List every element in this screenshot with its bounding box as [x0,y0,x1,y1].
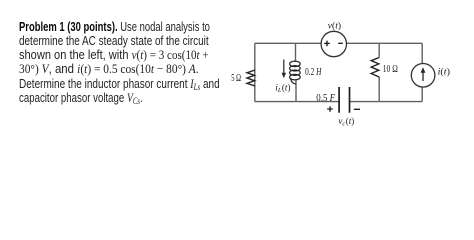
plus sign in source [324,41,330,47]
wire inductor branch [295,43,298,101]
voltage source V circle [321,31,346,56]
svg-text:i(t): i(t) [438,66,450,77]
wire top-left segment [255,42,321,44]
resistor R 10ohm [371,58,379,78]
capacitor minus polarity [354,108,360,110]
wire 10-ohm branch [378,43,380,101]
wire bottom-right segment [350,101,422,103]
resistor R 5ohm [247,70,255,86]
minus sign in source [338,42,343,44]
wire right branch [421,43,423,101]
capacitor C plates [339,87,349,113]
svg-text:5 Ω: 5 Ω [231,73,241,84]
svg-text:vc(t): vc(t) [338,116,354,128]
svg-text:v(t): v(t) [328,20,341,31]
current arrow iL [283,60,285,75]
svg-text:0.2 H: 0.2 H [305,67,322,78]
wire bottom-left segment [255,101,339,103]
svg-text:10 Ω: 10 Ω [383,64,398,75]
svg-text:0.5 F: 0.5 F [316,93,335,104]
svg-text:iL(t): iL(t) [275,83,290,95]
capacitor plus polarity [327,106,333,112]
arrow in current source [422,71,424,82]
wire top-right segment [347,42,423,44]
current source I circle [411,64,435,88]
inductor L coil [290,61,301,84]
wire left branch [254,43,256,101]
